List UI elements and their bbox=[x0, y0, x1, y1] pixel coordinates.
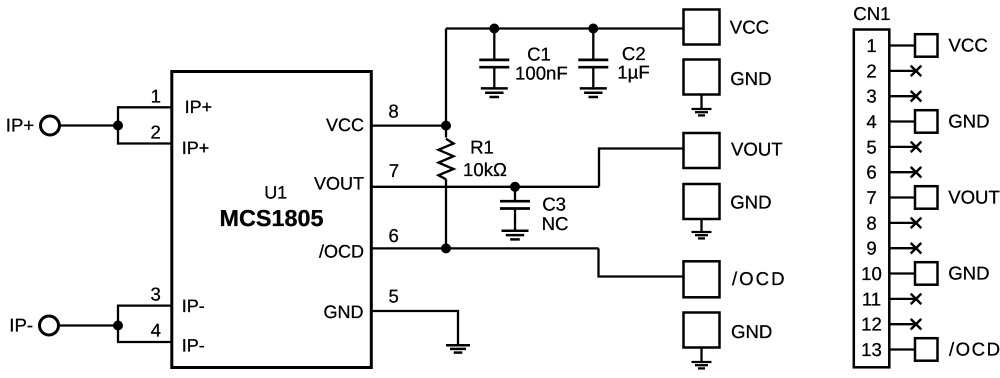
wire pin 8 VCC bbox=[371, 124, 446, 126]
wire CN1 pin 3 bbox=[889, 95, 917, 97]
svg-text:4: 4 bbox=[151, 319, 161, 340]
wire C3 bottom lead bbox=[514, 210, 516, 231]
pad CN1 GND a bbox=[915, 110, 938, 133]
IC U1 body bbox=[172, 72, 371, 368]
junction C3 bbox=[510, 182, 520, 192]
wire CN1 pin 2 bbox=[889, 70, 917, 72]
svg-text:VCC: VCC bbox=[730, 17, 769, 38]
wire VCC top rail bbox=[446, 27, 684, 29]
svg-text:12: 12 bbox=[861, 314, 882, 335]
no-connect pin 12 bbox=[911, 319, 922, 330]
wire GND 3 stem bbox=[700, 348, 702, 362]
wire CN1 pin 7 bbox=[889, 196, 916, 198]
ground pin 5 bbox=[446, 345, 470, 352]
svg-text:C3: C3 bbox=[542, 193, 566, 214]
wire pin 1 bbox=[118, 106, 172, 108]
svg-text:GND: GND bbox=[731, 321, 772, 342]
svg-text:3: 3 bbox=[866, 86, 876, 107]
svg-text:2: 2 bbox=[151, 121, 161, 142]
junction VCC pin 8 bbox=[441, 121, 451, 131]
svg-text:10kΩ: 10kΩ bbox=[463, 159, 507, 180]
svg-text:7: 7 bbox=[389, 160, 399, 181]
svg-text:10: 10 bbox=[861, 263, 882, 284]
pad GND 2 bbox=[684, 184, 720, 219]
svg-text:1µF: 1µF bbox=[617, 62, 649, 83]
capacitor C1 bbox=[479, 60, 509, 67]
wire CN1 pin 4 bbox=[889, 120, 916, 122]
wire CN1 pin 5 bbox=[889, 146, 917, 148]
pad GND 3 bbox=[684, 313, 720, 348]
wire C2 top lead bbox=[592, 29, 594, 59]
svg-text:8: 8 bbox=[388, 101, 398, 122]
ground C2 bbox=[580, 88, 607, 97]
svg-text:U1: U1 bbox=[264, 182, 287, 202]
wire pin 7 VOUT net bbox=[371, 186, 599, 188]
svg-text:CN1: CN1 bbox=[853, 3, 890, 24]
svg-text:/OCD: /OCD bbox=[319, 242, 364, 262]
capacitor C2 bbox=[578, 60, 608, 67]
wire CN1 pin 1 bbox=[889, 44, 916, 46]
pad VOUT bbox=[684, 133, 720, 168]
no-connect pin 6 bbox=[911, 167, 922, 178]
wire CN1 pin 6 bbox=[889, 171, 917, 173]
svg-text:IP-: IP- bbox=[182, 296, 205, 316]
wire pin 3 bbox=[118, 304, 172, 306]
wire IP- vertical branch bbox=[117, 305, 119, 344]
ground pad 3 bbox=[692, 362, 712, 368]
svg-text:5: 5 bbox=[389, 285, 399, 306]
wire IP+ terminal to junction bbox=[61, 124, 120, 126]
no-connect pin 2 bbox=[911, 66, 922, 77]
svg-text:VOUT: VOUT bbox=[948, 186, 1000, 207]
wire /OCD drop bbox=[599, 248, 684, 276]
svg-text:IP-: IP- bbox=[182, 335, 205, 355]
wire IP- terminal to junction bbox=[59, 324, 119, 326]
terminal IP+ bbox=[41, 116, 60, 135]
svg-text:IP+: IP+ bbox=[6, 114, 34, 135]
svg-text:6: 6 bbox=[389, 225, 399, 246]
wire GND 2 stem bbox=[700, 219, 702, 232]
connector CN1 body bbox=[854, 30, 890, 368]
no-connect pin 11 bbox=[911, 294, 922, 305]
wire pin 4 bbox=[118, 341, 172, 343]
pad CN1 GND b bbox=[915, 262, 938, 285]
junction IP- bbox=[113, 321, 123, 331]
wire CN1 pin 11 bbox=[889, 298, 917, 300]
svg-text:2: 2 bbox=[866, 60, 876, 81]
wire CN1 pin 10 bbox=[889, 272, 916, 274]
wire C1 top lead bbox=[493, 29, 495, 59]
svg-text:/OCD: /OCD bbox=[732, 268, 785, 289]
svg-text:13: 13 bbox=[861, 339, 882, 360]
wire R1 to /OCD net bbox=[445, 179, 447, 248]
ground pad 2 bbox=[692, 232, 712, 238]
svg-text:1: 1 bbox=[151, 86, 161, 107]
svg-text:VCC: VCC bbox=[326, 115, 364, 135]
svg-text:4: 4 bbox=[866, 111, 876, 132]
wire VCC rail vertical bbox=[445, 29, 447, 138]
svg-text:5: 5 bbox=[866, 136, 876, 157]
svg-text:100nF: 100nF bbox=[515, 63, 568, 84]
svg-text:/OCD: /OCD bbox=[949, 338, 1000, 359]
svg-text:VOUT: VOUT bbox=[731, 138, 783, 159]
wire pin 5 drop bbox=[457, 310, 459, 344]
wire GND 1 stem bbox=[700, 95, 702, 109]
junction IP+ bbox=[113, 121, 123, 131]
wire C3 top lead bbox=[514, 187, 516, 200]
svg-text:GND: GND bbox=[324, 302, 364, 322]
ground C1 bbox=[481, 88, 508, 97]
wire pin 2 bbox=[118, 142, 172, 144]
svg-text:C1: C1 bbox=[527, 44, 551, 65]
no-connect pin 5 bbox=[911, 142, 922, 153]
resistor R1 bbox=[439, 139, 454, 180]
wire CN1 pin 13 bbox=[889, 348, 916, 350]
svg-text:1: 1 bbox=[866, 35, 876, 56]
pad GND 1 bbox=[684, 60, 720, 95]
svg-text:GND: GND bbox=[948, 262, 989, 283]
svg-text:VCC: VCC bbox=[949, 34, 988, 55]
svg-text:IP+: IP+ bbox=[182, 138, 210, 158]
svg-text:GND: GND bbox=[948, 110, 989, 131]
wire CN1 pin 12 bbox=[889, 323, 917, 325]
pad CN1 VCC bbox=[915, 34, 938, 57]
svg-text:VOUT: VOUT bbox=[314, 173, 364, 193]
svg-text:GND: GND bbox=[730, 68, 771, 89]
capacitor C3 bbox=[500, 201, 530, 208]
svg-text:MCS1805: MCS1805 bbox=[220, 205, 324, 231]
svg-text:NC: NC bbox=[542, 213, 569, 234]
wire pin 5 GND bbox=[371, 310, 458, 312]
svg-text:IP+: IP+ bbox=[185, 97, 213, 117]
wire VOUT riser bbox=[599, 149, 684, 187]
pad CN1 VOUT bbox=[915, 186, 938, 209]
svg-text:6: 6 bbox=[866, 162, 876, 183]
no-connect pin 3 bbox=[911, 91, 922, 102]
junction C2 bbox=[588, 24, 598, 34]
svg-text:8: 8 bbox=[866, 212, 876, 233]
no-connect pin 8 bbox=[911, 218, 922, 229]
svg-text:3: 3 bbox=[151, 284, 161, 305]
svg-text:7: 7 bbox=[866, 187, 876, 208]
junction R1 /OCD bbox=[441, 243, 451, 253]
svg-text:R1: R1 bbox=[470, 137, 494, 158]
junction C1 bbox=[489, 24, 499, 34]
svg-text:11: 11 bbox=[862, 288, 881, 309]
ground C3 bbox=[502, 231, 529, 240]
wire CN1 pin 8 bbox=[889, 222, 917, 224]
pad /OCD bbox=[684, 261, 720, 297]
wire IP+ vertical branch bbox=[117, 106, 119, 144]
pad VCC bbox=[684, 10, 720, 45]
terminal IP- bbox=[40, 316, 59, 335]
ground pad 1 bbox=[692, 109, 712, 115]
no-connect pin 9 bbox=[911, 243, 922, 254]
svg-text:9: 9 bbox=[866, 238, 876, 259]
svg-text:GND: GND bbox=[730, 192, 771, 213]
wire C2 bottom lead bbox=[592, 69, 594, 88]
pad CN1 /OCD bbox=[915, 338, 938, 361]
wire CN1 pin 9 bbox=[889, 247, 917, 249]
wire C1 bottom lead bbox=[493, 69, 495, 88]
wire pin 6 /OCD net bbox=[371, 247, 599, 249]
svg-text:IP-: IP- bbox=[9, 314, 33, 335]
